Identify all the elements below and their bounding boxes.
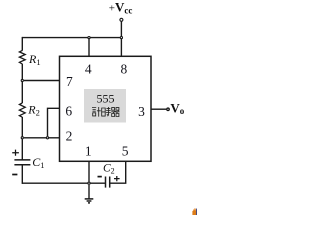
wire C1 bottom to ground rail <box>21 165 23 184</box>
label C2 plus sign <box>114 176 120 181</box>
555 timer inner gray box <box>84 89 126 123</box>
capacitor C2 <box>106 177 110 188</box>
node junction R2/pin2 <box>21 137 23 139</box>
wire top rail Vcc <box>22 37 121 39</box>
node junction pin1/ground <box>88 182 90 184</box>
label C1 minus sign <box>12 174 17 176</box>
node junction pin6 drop on pin2 wire <box>46 137 48 139</box>
node junction pin8 on Vcc rail <box>120 37 122 39</box>
wire bottom rail <box>22 182 105 184</box>
wire pin1 <box>88 161 90 181</box>
svg-text:8: 8 <box>121 62 128 77</box>
svg-text:3: 3 <box>138 104 145 119</box>
wire left rail R1 to R2 <box>21 64 23 103</box>
wire pin7 <box>24 80 60 82</box>
label CJK timer char 3 qi <box>111 108 119 117</box>
terminal Vcc <box>120 18 123 21</box>
text fragment cropped figure caption corner <box>192 208 197 215</box>
svg-text:5: 5 <box>122 144 129 159</box>
svg-text:2: 2 <box>66 129 73 144</box>
svg-text:4: 4 <box>85 62 92 77</box>
svg-text:555: 555 <box>97 92 115 106</box>
IC U1 555 timer body <box>60 56 152 161</box>
label CJK timer char 2 shi <box>102 107 111 116</box>
label CJK timer char 1 ji <box>92 107 101 117</box>
resistor R2 <box>19 103 25 117</box>
resistor R1 <box>19 50 25 64</box>
svg-text:6: 6 <box>65 103 72 118</box>
svg-text:7: 7 <box>66 74 73 89</box>
wire pin8 Vcc drop <box>120 21 122 56</box>
wire pin4 <box>88 38 90 57</box>
node junction R1/R2/pin7 <box>21 79 23 81</box>
terminal Vo <box>167 108 170 111</box>
wire left rail R2 to C1 <box>21 117 23 160</box>
wire pin3 output <box>151 108 166 110</box>
label C1 plus sign <box>12 150 19 156</box>
label C2 minus sign <box>98 176 102 178</box>
ground <box>85 185 94 203</box>
wire left rail upper (Vcc to R1 top) <box>21 37 23 51</box>
wire pin2 <box>24 137 60 139</box>
node junction pin4 on Vcc rail <box>88 37 90 39</box>
wire C2 right to pin5 <box>110 161 126 183</box>
svg-text:1: 1 <box>85 144 92 159</box>
capacitor C1 <box>14 160 30 165</box>
wire pin6 L-shape <box>48 108 60 136</box>
